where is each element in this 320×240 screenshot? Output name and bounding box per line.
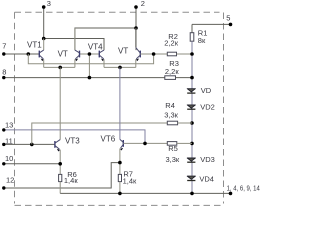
wire VT6 base row to R5 bbox=[123, 142, 167, 144]
wire pin2 down to VT5 collector bbox=[135, 28, 137, 50]
diode VD1 bbox=[187, 89, 195, 93]
wire R7 bottom to ground bus bbox=[119, 182, 121, 194]
svg-text:3,3к: 3,3к bbox=[166, 155, 180, 164]
node R7 ground bbox=[118, 192, 122, 196]
resistor R5 bbox=[167, 142, 177, 146]
node jumper bottom on pin8 line bbox=[88, 76, 92, 80]
pin 11 terminal bbox=[2, 143, 5, 146]
svg-text:VT3: VT3 bbox=[65, 136, 80, 145]
pin 10 terminal bbox=[2, 162, 5, 165]
wire R4 to VD column bbox=[178, 122, 192, 124]
node jumper top bbox=[88, 52, 92, 56]
pin 7 terminal bbox=[2, 52, 5, 55]
svg-text:3,3к: 3,3к bbox=[164, 111, 178, 120]
node R5 column bbox=[190, 142, 194, 146]
resistor R4 bbox=[167, 121, 177, 125]
svg-text:2: 2 bbox=[141, 0, 145, 8]
transistor VT4 bbox=[99, 50, 104, 67]
VD column vertical wire bbox=[191, 54, 193, 193]
svg-text:VD: VD bbox=[201, 86, 212, 95]
node pin13 drop on VT6 base row bbox=[143, 142, 147, 146]
pin 5 wire bbox=[192, 23, 231, 25]
svg-text:VT4: VT4 bbox=[88, 43, 103, 52]
wire bus A from pin7 tap to R2 node bbox=[28, 54, 153, 64]
pin 11 wire bbox=[4, 143, 55, 145]
node pin10 / VT3 emitter bbox=[58, 162, 62, 166]
wire R6 bottom to ground bus bbox=[59, 182, 61, 194]
wire VT5 base to R2 bbox=[140, 53, 167, 55]
wire R5 to VD column bbox=[177, 142, 192, 144]
wire U1 emitters of VT1/VT2 bbox=[44, 66, 75, 68]
node VD column ground bbox=[190, 192, 194, 196]
svg-text:11: 11 bbox=[5, 136, 13, 145]
svg-text:1,4к: 1,4к bbox=[123, 177, 137, 186]
svg-text:10: 10 bbox=[5, 154, 13, 163]
diode VD4 bbox=[187, 176, 195, 180]
wire pin2 loop to VT2 collector bbox=[75, 28, 136, 50]
ground pins terminal bbox=[229, 192, 233, 196]
svg-text:1, 4, 6, 9, 14: 1, 4, 6, 9, 14 bbox=[227, 186, 260, 193]
svg-text:7: 7 bbox=[2, 41, 6, 50]
wire jumper base row to pin8 line bbox=[88, 54, 90, 78]
svg-text:1,4к: 1,4к bbox=[64, 176, 78, 185]
wire base row of VT2/VT4 pair bbox=[80, 53, 100, 55]
svg-text:12: 12 bbox=[6, 176, 14, 185]
svg-text:5: 5 bbox=[226, 14, 230, 23]
transistor VT1 bbox=[39, 39, 44, 68]
pin 10 wire bbox=[4, 163, 60, 165]
wire pin11 bypass to R4 bbox=[32, 123, 168, 144]
transistor VT6 (mirrored) bbox=[120, 67, 123, 174]
node pin3/VT1 collector junction bbox=[42, 37, 46, 41]
node pin7 bus tap bbox=[27, 52, 31, 56]
resistor R2 bbox=[167, 52, 176, 56]
pin 3 terminal bbox=[42, 5, 46, 9]
svg-text:2,2к: 2,2к bbox=[164, 39, 178, 48]
resistor R7 bbox=[118, 174, 121, 181]
transistor VT5 (mirrored, unlabeled VT) bbox=[136, 28, 141, 67]
pin 13 wire bbox=[4, 130, 145, 144]
wire pin3 branch to VT4 collector bbox=[44, 39, 104, 51]
node pin12 / VT6 emitter bbox=[118, 161, 122, 165]
diode VD3 bbox=[187, 158, 195, 162]
node R4 column bbox=[190, 121, 194, 125]
svg-text:VD2: VD2 bbox=[200, 102, 215, 111]
diode VD2 bbox=[187, 105, 195, 109]
pin 5 terminal bbox=[229, 23, 233, 27]
pin 12 wire with bypass to VT6 emitter bbox=[4, 163, 120, 188]
svg-text:VT: VT bbox=[118, 47, 128, 56]
wire U2 emitters of VT4/VT5 bbox=[104, 66, 136, 68]
ground bus wire bbox=[60, 192, 230, 194]
node U2 center tap bbox=[118, 66, 122, 70]
svg-text:VT1: VT1 bbox=[27, 41, 42, 50]
resistor R6 bbox=[59, 174, 62, 181]
pin 12 terminal bbox=[2, 186, 5, 189]
svg-text:8: 8 bbox=[2, 67, 6, 76]
svg-text:VT: VT bbox=[58, 49, 68, 58]
pin 13 terminal bbox=[2, 128, 5, 131]
node base/R2/busA junction bbox=[152, 52, 156, 56]
pin 2 terminal bbox=[134, 5, 138, 9]
node R3 column bbox=[190, 76, 194, 80]
pin 8 terminal bbox=[2, 76, 5, 79]
svg-text:VT6: VT6 bbox=[101, 134, 116, 143]
svg-text:R5: R5 bbox=[168, 144, 178, 153]
svg-text:2,2к: 2,2к bbox=[165, 67, 179, 76]
pin 2 stem wire bbox=[135, 7, 137, 28]
resistor R3 bbox=[165, 76, 176, 80]
node U1 center tap bbox=[58, 66, 62, 70]
node R2 column bbox=[190, 52, 194, 56]
svg-text:13: 13 bbox=[5, 120, 13, 129]
transistor VT3 bbox=[55, 67, 60, 174]
svg-text:R4: R4 bbox=[165, 101, 175, 110]
node pin11 bypass tap bbox=[30, 143, 34, 147]
svg-text:3: 3 bbox=[47, 0, 51, 8]
transistor VT2 (mirrored, unlabeled VT) bbox=[75, 28, 80, 67]
node pin2/VT5 collector junction bbox=[134, 26, 138, 30]
resistor R1 bbox=[190, 24, 194, 54]
wire R2 to VD column bbox=[177, 53, 193, 55]
pin 3 stem wire bbox=[43, 7, 45, 39]
svg-text:VD4: VD4 bbox=[199, 175, 214, 184]
svg-text:VD3: VD3 bbox=[200, 155, 215, 164]
pin 7 input wire bbox=[4, 53, 40, 55]
pin 8 input wire to R3 bbox=[4, 77, 165, 79]
svg-text:8к: 8к bbox=[198, 36, 206, 45]
dashed IC boundary box bbox=[15, 12, 224, 205]
wire R3 to VD column bbox=[176, 77, 193, 79]
